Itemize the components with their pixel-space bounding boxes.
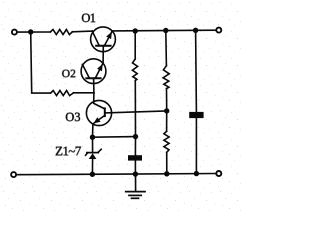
wire R1 to O1 collector — [72, 30, 92, 33]
wire O1 emitter to output rail — [112, 29, 216, 32]
capacitor C1 — [134, 137, 136, 156]
resistor R1 — [50, 30, 72, 35]
terminal bottom-right — [216, 171, 221, 176]
ground — [126, 174, 145, 198]
transistor O2 — [81, 59, 106, 93]
node input junction — [28, 29, 33, 34]
zener Z1~7 — [86, 137, 102, 174]
node zener bottom — [90, 172, 95, 177]
wire R2 to base node — [74, 92, 94, 94]
svg-text:O3: O3 — [65, 110, 80, 124]
bottom rail — [17, 174, 216, 175]
wire rail to R3 — [134, 31, 136, 59]
svg-text:Z1~7: Z1~7 — [55, 143, 82, 158]
resistor R3 — [132, 59, 137, 81]
wire R4 to tap — [166, 89, 168, 111]
node rail top R4 — [163, 28, 168, 33]
node rail top R3 — [133, 28, 138, 33]
wire R3 to C1 node — [134, 81, 136, 137]
wire left vertical to R2 — [31, 32, 51, 93]
wire O3 base to divider tap — [105, 111, 167, 113]
wire rail to R4 — [165, 31, 168, 66]
wire R5 to rail — [166, 152, 168, 173]
terminal top-left — [12, 30, 17, 35]
svg-text:O1: O1 — [81, 11, 95, 25]
wire O3 emitter down — [92, 124, 94, 137]
terminal top-right — [216, 28, 221, 33]
node R5 bottom — [164, 171, 169, 176]
terminal bottom-left — [11, 172, 16, 177]
node rail top C2 — [193, 28, 198, 33]
resistor R5 — [164, 131, 169, 152]
node C2 bottom — [194, 171, 199, 176]
svg-text:O2: O2 — [62, 68, 76, 80]
transistor O1 — [91, 27, 116, 63]
wire input to R1 — [17, 31, 50, 33]
wire tap to R5 — [166, 111, 168, 131]
transistor O3 — [86, 100, 111, 125]
resistor R4 — [163, 66, 169, 89]
node divider tap — [164, 108, 169, 113]
node C1 top — [133, 134, 138, 139]
capacitor C2 — [195, 30, 198, 112]
wire zener top to C1 node — [93, 136, 136, 139]
wire O2 base node to O3 collector — [94, 93, 105, 109]
node ground junction — [133, 171, 138, 176]
node zener top — [90, 135, 95, 140]
resistor R2 — [51, 91, 74, 96]
